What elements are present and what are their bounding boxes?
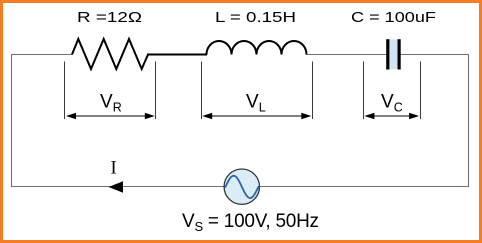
arrow VC bbox=[364, 113, 419, 119]
capacitor C bbox=[389, 40, 398, 70]
tick VR right bbox=[155, 62, 157, 120]
wire: bottom right (source to corner) bbox=[259, 186, 469, 188]
wire: resistor to inductor (black lead) bbox=[147, 54, 207, 56]
tick VL right bbox=[312, 62, 314, 120]
wire: right vertical bbox=[468, 54, 470, 187]
wire: capacitor to right corner bbox=[400, 54, 469, 56]
svg-text:R =12Ω: R =12Ω bbox=[77, 9, 142, 26]
wire: top left (corner to resistor) bbox=[11, 54, 73, 56]
resistor R zigzag bbox=[72, 39, 148, 69]
tick VC right bbox=[420, 62, 422, 120]
source sine wave bbox=[225, 176, 258, 198]
wire: inductor to capacitor bbox=[307, 54, 387, 56]
source VS circle bbox=[224, 169, 259, 204]
svg-text:C = 100uF: C = 100uF bbox=[351, 9, 436, 26]
wire: left vertical bbox=[11, 54, 13, 187]
tick VC left bbox=[363, 62, 365, 120]
arrow VL bbox=[202, 113, 311, 119]
svg-text:I: I bbox=[111, 159, 117, 179]
arrow VR bbox=[66, 113, 155, 119]
current arrowhead I bbox=[109, 181, 123, 192]
tick VR left bbox=[64, 62, 66, 120]
svg-text:L = 0.15H: L = 0.15H bbox=[215, 9, 296, 26]
inductor L bbox=[207, 41, 307, 55]
tick VL left bbox=[201, 62, 203, 120]
svg-text:VS = 100V, 50Hz: VS = 100V, 50Hz bbox=[182, 211, 319, 234]
wire: bottom left (corner to source) bbox=[11, 186, 225, 188]
